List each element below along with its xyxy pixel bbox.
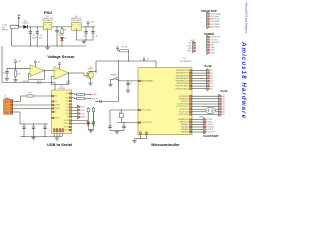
svg-text:C19: C19 <box>2 72 5 74</box>
ground symbol PSU <box>45 46 49 49</box>
pin U3 left USBDM <box>52 104 61 106</box>
svg-text:R22: R22 <box>17 74 20 76</box>
regulator U5 LM2940-5.0 <box>42 16 54 30</box>
ground symbol U1 <box>132 140 136 143</box>
svg-text:RB2/INT2/AN8: RB2/INT2/AN8 <box>176 82 188 85</box>
svg-text:PortA: PortA <box>220 89 227 93</box>
svg-text:Amicus18 Hardware: Amicus18 Hardware <box>240 41 247 119</box>
svg-text:C1: C1 <box>130 82 132 84</box>
pin U1 RB2/INT2/AN8 <box>176 82 191 85</box>
op-amp U2:A LM358 <box>30 65 45 85</box>
svg-text:A2: A2 <box>223 100 225 103</box>
section label PortC USART <box>203 135 219 138</box>
svg-text:FT232RL: FT232RL <box>58 88 66 90</box>
LED D3 TX red <box>87 122 90 130</box>
resistor R2 TX LED <box>71 107 89 121</box>
svg-text:POWER: POWER <box>204 32 214 36</box>
svg-text:REGULATOR: REGULATOR <box>71 19 83 22</box>
resistor R20 power LED <box>61 27 67 36</box>
svg-text:CBUS3: CBUS3 <box>64 130 69 132</box>
capacitor C4 usb <box>43 124 46 137</box>
wire USB D+ <box>13 108 52 110</box>
pin U1 RA4/T0CKI <box>179 121 191 124</box>
wire U2:A out to U2:B <box>44 70 54 71</box>
label resonator value <box>199 116 204 118</box>
pin U3 right DTR <box>66 107 72 109</box>
wire MCLR to MCU <box>119 80 139 81</box>
capacitor C16 +5V rail <box>55 21 62 46</box>
svg-text:PSU: PSU <box>44 10 52 15</box>
pin U3 left USBDP <box>52 108 60 110</box>
wire USB GND down <box>13 112 48 125</box>
svg-text:from TX: from TX <box>92 99 99 101</box>
pin U3 right CBUS0 <box>64 120 72 122</box>
pin U1 RC0/T1OSO <box>178 114 192 116</box>
label J1 USB-A <box>4 95 10 100</box>
svg-text:OSC1/CLKIN: OSC1/CLKIN <box>141 110 151 112</box>
wire U2:B output to Q1 <box>68 72 86 75</box>
pin J1 GND <box>11 111 13 113</box>
wire U6 output +3.3V <box>81 26 95 27</box>
pin U3 right DCD <box>65 113 71 115</box>
crystal X1 <box>119 110 123 123</box>
pin U1 RA1/AN1 <box>181 128 192 131</box>
svg-text:REGULATOR: REGULATOR <box>42 19 54 22</box>
ground symbol R22 <box>13 79 17 82</box>
pin U1 RA2/AN2 <box>181 126 192 129</box>
wire OSC1 <box>110 109 138 110</box>
IC U3 FT232RL body <box>52 90 72 134</box>
wire divider node <box>7 65 30 69</box>
capacitor C2 usb <box>22 124 25 137</box>
pin U3 right TXD <box>66 93 72 95</box>
connector J7 PortB <box>207 69 213 91</box>
capacitor C6 osc2 <box>122 123 125 131</box>
pin U1 RB4/KBI0/AN11 <box>176 77 192 80</box>
IC U1 PIC18F25K20 label <box>180 58 191 63</box>
wire PortC bus <box>192 120 203 133</box>
ground symbol U3 <box>55 137 59 140</box>
ground symbol crystal <box>115 131 119 134</box>
ferrite bead FB1 <box>26 92 52 97</box>
connector J9 PortC <box>203 118 214 134</box>
pin U3 left NC <box>52 111 58 113</box>
pin U3 right RXD <box>65 97 71 99</box>
section label Microcontroller <box>151 142 180 147</box>
wire U5 out to U6 in <box>52 26 72 27</box>
svg-text:RESET: RESET <box>111 74 118 76</box>
wire Q1 collector <box>90 71 96 73</box>
net label to RX <box>87 93 97 96</box>
wire U2:A power stub <box>34 60 41 67</box>
ground rail USB <box>20 136 62 137</box>
capacitor C17 3.3V rail <box>83 27 88 40</box>
svg-text:R20: R20 <box>64 30 67 32</box>
title Amicus18 Hardware <box>240 41 247 119</box>
pin U3 left VCC <box>52 95 59 97</box>
svg-text:RB1/INT1/AN10: RB1/INT1/AN10 <box>175 85 188 88</box>
svg-text:RESET: RESET <box>54 118 59 120</box>
ground symbol LEDs <box>88 130 93 133</box>
svg-text:R1 10k: R1 10k <box>122 47 128 49</box>
LED D4 RX green <box>92 122 95 130</box>
pin U3 right RI <box>67 116 71 118</box>
net label from TX <box>87 98 99 101</box>
power arrow +5V to VDD net <box>143 57 150 61</box>
pin U3 left 3V3 <box>52 101 58 103</box>
resistor R3 RX LED <box>71 107 94 124</box>
pin U1 RB7/KBI3/PGD <box>176 70 192 72</box>
svg-text:GND: GND <box>187 51 192 53</box>
pin U1 RC2/CCP1 <box>180 108 192 110</box>
svg-text:RTS: RTS <box>66 101 69 103</box>
ground symbol U6 <box>82 40 86 43</box>
connector J4 PICkit2 ICSP <box>207 12 221 28</box>
svg-text:BC817: BC817 <box>88 69 94 71</box>
svg-text:A4: A4 <box>223 105 225 108</box>
connector J1 USB-A <box>4 100 13 115</box>
wire input rail <box>19 26 24 28</box>
svg-text:C17: C17 <box>83 36 86 38</box>
pin U1 RB0/INT0/AN12 <box>175 87 191 90</box>
svg-text:AUX (RB3): AUX (RB3) <box>211 25 220 28</box>
svg-text:Voltage Sensor: Voltage Sensor <box>47 55 75 59</box>
wire U2:B feedback <box>51 73 68 85</box>
svg-text:USB to Serial: USB to Serial <box>47 142 72 147</box>
pin U1 RC5/SDO <box>180 101 191 103</box>
capacitor C18 3.3V rail <box>91 27 97 40</box>
svg-text:RB4/KBI0/AN11: RB4/KBI0/AN11 <box>176 77 189 80</box>
svg-text:PIC18F25K20: PIC18F25K20 <box>180 61 191 63</box>
switch SW1 reset button <box>111 77 119 83</box>
pin U1 OSC1/CLKIN <box>138 109 151 111</box>
transistor Q1 BC817 <box>86 66 93 78</box>
wire U2:B power stub <box>58 62 60 69</box>
pin U1 RB6/KBI2/PGC <box>176 72 192 74</box>
wire USB VCC to ferrite <box>13 96 26 102</box>
svg-text:PortB: PortB <box>204 64 211 68</box>
regulator U6 LM2937-3.3 <box>71 16 83 31</box>
IC U3 FT232RL label <box>58 86 66 90</box>
svg-text:A7: A7 <box>223 113 225 116</box>
svg-text:CTS: CTS <box>66 104 69 106</box>
pin U3 right DSR <box>65 110 71 112</box>
wire USB D- <box>13 104 52 106</box>
pin U1 RC3/SCK/SCL <box>177 106 192 108</box>
section label PortA <box>220 89 227 93</box>
capacitor C5 osc1 <box>108 110 111 131</box>
svg-text:RB3/AN9/CCP2: RB3/AN9/CCP2 <box>176 80 189 83</box>
pin U1 RB5/KBI1/PGM <box>176 75 192 77</box>
wire 3.3V caps ground link <box>76 39 93 40</box>
svg-text:RA0/AN0: RA0/AN0 <box>181 131 189 134</box>
note Amicus18 Circuit Diagram <box>244 2 248 34</box>
svg-text:100nF: 100nF <box>32 37 37 39</box>
pin U3 right CBUS2 <box>64 126 72 128</box>
wire U5 ground pin <box>47 30 49 46</box>
svg-text:LM358: LM358 <box>36 83 41 85</box>
svg-text:CBUS0: CBUS0 <box>64 120 69 122</box>
pin U3 right CBUS1 <box>64 123 72 125</box>
wire reset net horizontal <box>96 60 156 79</box>
wire Q1 emitter <box>89 78 91 82</box>
pin U1 RA5/AN4/SS <box>178 118 192 121</box>
connector J6 aux power <box>186 40 195 52</box>
pin U1 MCLR/Vpp/RE3 <box>138 80 152 82</box>
svg-text:INPUT: INPUT <box>2 30 9 32</box>
op-amp U2:B LM358 <box>54 67 71 85</box>
svg-text:A5: A5 <box>223 108 225 111</box>
pin U1 RB3/AN9/CCP2 <box>176 80 192 83</box>
wire PortB bus <box>192 71 207 89</box>
capacitor C3 usb <box>32 124 35 137</box>
section label PSU <box>44 10 52 15</box>
pin U3 bottom GND group <box>53 129 63 132</box>
LED D2 power red <box>60 37 66 46</box>
svg-text:1N4007: 1N4007 <box>22 23 28 25</box>
power arrow VIN sense <box>14 60 21 65</box>
pin J1 VCC <box>11 101 13 103</box>
svg-text:GND: GND <box>211 52 216 54</box>
resistor R21 divider lower <box>14 68 20 78</box>
pin J1 D+ <box>11 108 13 110</box>
section label PICkit2 ICSP <box>201 9 217 13</box>
connector J3 handshake header <box>71 108 77 117</box>
connector J5 POWER <box>207 35 222 54</box>
node VIN input label <box>2 25 9 32</box>
resistor R5 RXD series <box>71 98 87 100</box>
svg-text:B0: B0 <box>211 88 213 90</box>
svg-text:FB1: FB1 <box>28 92 31 94</box>
svg-text:C18: C18 <box>95 36 98 38</box>
wire PortA bus <box>192 96 219 114</box>
connector J2 DC power jack <box>10 25 19 28</box>
wire DTR reset cap row <box>95 80 119 103</box>
svg-text:RC0/T1OSO: RC0/T1OSO <box>178 114 189 116</box>
svg-text:CBUS2: CBUS2 <box>64 127 69 129</box>
svg-text:A0: A0 <box>223 95 225 98</box>
ground symbol SW1 <box>108 83 112 86</box>
ground symbol C1 <box>126 89 130 92</box>
connector J8 PortA <box>219 95 225 117</box>
svg-text:PortC/USART: PortC/USART <box>203 135 219 138</box>
pin U3 left RESET <box>52 117 60 119</box>
resonator X2 <box>206 107 216 114</box>
diode D1 1N4007 <box>22 20 28 29</box>
svg-text:C2/CCP1: C2/CCP1 <box>207 132 215 134</box>
IC U1 PIC18F25K20 body <box>138 68 192 135</box>
wire U2:A feedback <box>28 71 44 80</box>
svg-text:100u: 100u <box>58 35 62 37</box>
resistor R1 MCLR pullup <box>116 46 129 61</box>
wire U6 ground pin <box>75 30 77 40</box>
wire input jack return <box>11 29 13 46</box>
svg-text:CBUS1: CBUS1 <box>64 123 69 125</box>
svg-text:MCLR/Vpp/RE3: MCLR/Vpp/RE3 <box>141 81 152 83</box>
ground rail PSU <box>12 45 87 46</box>
capacitor C1 MCLR <box>126 81 132 89</box>
pin U3 right RTS <box>66 100 72 102</box>
svg-text:RC4/SDI/SDA: RC4/SDI/SDA <box>177 103 189 106</box>
ground symbol C19 <box>5 78 9 81</box>
svg-text:A6: A6 <box>223 111 225 114</box>
ground symbol USB <box>31 137 35 140</box>
pin U1 RC4/SDI/SDA <box>177 103 192 106</box>
capacitor C15 input electrolytic <box>36 27 43 46</box>
wire OSC2 <box>117 122 138 123</box>
pin U1 OSC2/CLKOUT <box>138 122 152 124</box>
section label PortB <box>204 64 211 68</box>
pin U1 RC7/RX/DT <box>179 95 192 97</box>
ground symbol Q1 <box>88 82 92 85</box>
capacitor C14 input <box>29 27 37 46</box>
pin U3 right CBUS3 <box>64 129 72 131</box>
pin U1 VDD top <box>155 68 157 70</box>
svg-text:3V3: 3V3 <box>54 101 57 103</box>
svg-text:D2: D2 <box>64 38 66 40</box>
svg-text:RB0/INT0/AN12: RB0/INT0/AN12 <box>175 87 188 90</box>
wire diode to regulator U5 <box>27 26 43 27</box>
pin U1 RA3/AN3 <box>181 123 192 126</box>
pin U1 VSS pads <box>140 132 148 135</box>
svg-text:A1: A1 <box>223 98 225 101</box>
svg-text:Amicus18 Circuit Diagram: Amicus18 Circuit Diagram <box>244 2 248 34</box>
svg-text:Microcontroller: Microcontroller <box>151 142 180 147</box>
svg-text:47uF: 47uF <box>39 37 43 39</box>
resistor R4 TXD series <box>71 93 87 95</box>
pin U3 right CTS <box>66 104 72 106</box>
wire crystal ground rail <box>110 130 124 132</box>
power arrow +3.3V <box>87 21 95 27</box>
svg-text:A3: A3 <box>223 103 225 106</box>
pin U1 RA0/AN0 <box>181 131 192 134</box>
pin J1 D- <box>11 104 13 106</box>
svg-text:USBDP: USBDP <box>54 108 59 110</box>
section label USB to Serial <box>47 142 72 147</box>
power arrow VIN stub <box>17 15 21 27</box>
pin U1 RC1/T1OSI <box>179 111 192 113</box>
section label Voltage Sensor <box>47 55 75 59</box>
label RESET <box>111 74 118 76</box>
pin U1 RC6/TX/CK <box>179 98 192 100</box>
svg-text:D+: D+ <box>5 108 7 110</box>
svg-text:OSC2/CLKOUT: OSC2/CLKOUT <box>141 122 152 124</box>
capacitor C19 divider <box>2 68 9 77</box>
wire U3 ground leads <box>54 134 62 137</box>
svg-text:USBDM: USBDM <box>54 105 60 107</box>
pin U1 RB1/INT1/AN10 <box>175 85 191 88</box>
section label POWER <box>204 32 214 36</box>
wire U1 VSS to ground <box>135 135 147 140</box>
wire USB +5V rail <box>2 46 55 90</box>
